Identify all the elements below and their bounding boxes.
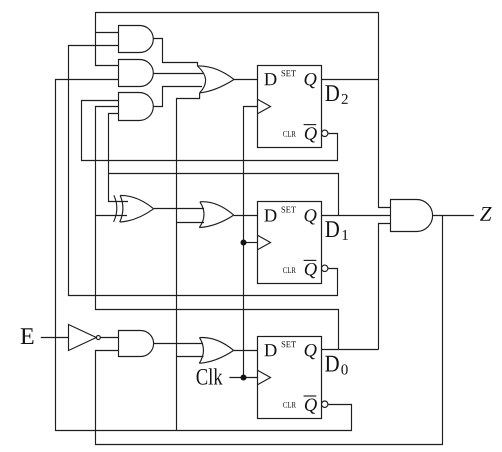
wire Q-bar0 branch to OR3 input b bbox=[177, 356, 204, 358]
wire input E bbox=[41, 337, 69, 339]
label output Z bbox=[480, 207, 492, 221]
wire Q0 riser to AND-Z input c bbox=[379, 224, 391, 350]
junction dot clock DFF0 bbox=[241, 375, 247, 381]
wire Q-bar1 feedback to AND1 input b bbox=[69, 46, 338, 296]
wire Z feedback to AND4 input b bbox=[96, 216, 443, 445]
wire Q1 feedback line bbox=[109, 174, 339, 216]
flip-flop U1 clock triangle bbox=[258, 235, 271, 250]
and gate A3 bbox=[119, 93, 154, 121]
wire Q1 output to AND-Z input b bbox=[322, 215, 391, 217]
label SET pin U1 bbox=[282, 207, 296, 213]
inverter N1 bbox=[69, 325, 97, 351]
wire Q0 feedback riser to AND3 input b bbox=[96, 107, 339, 350]
wire clock bus bbox=[244, 107, 258, 378]
wire Q-bar2 feedback to AND3 input a bbox=[82, 101, 338, 161]
flip-flop U2 Q-bar bubble bbox=[322, 130, 328, 136]
label input Clk bbox=[197, 368, 223, 385]
wire Q-bar0 branch to OR2 input b bbox=[177, 222, 205, 224]
label D pin U1 bbox=[264, 209, 276, 221]
and gate A5 output Z bbox=[391, 200, 433, 232]
wire inverter output to AND4 bbox=[100, 337, 118, 339]
label Q pin U0 bbox=[305, 344, 317, 359]
wire Q0 output bbox=[322, 349, 379, 351]
wire AND1 output staircase to OR1 bbox=[153, 39, 197, 67]
inverter bubble bbox=[96, 336, 100, 340]
wire OR2 output to D1 bbox=[234, 215, 258, 217]
flip-flop U2 clock triangle bbox=[258, 99, 271, 114]
flip-flop U1 box bbox=[258, 202, 322, 284]
label D pin U2 bbox=[264, 73, 276, 85]
label D1 bbox=[325, 221, 339, 237]
wire AND4 output to OR3 bbox=[154, 343, 203, 345]
and gate A2 bbox=[119, 60, 154, 87]
label Q pin U2 bbox=[305, 73, 317, 88]
and gate A1 bbox=[119, 26, 154, 53]
label CLR pin U0 bbox=[283, 402, 296, 408]
or gate O3 bbox=[199, 337, 233, 363]
flip-flop U2 box bbox=[258, 66, 322, 148]
label CLR pin U2 bbox=[283, 131, 296, 137]
or gate O1 bbox=[198, 66, 235, 93]
wire OR1 output to D2 bbox=[234, 79, 258, 81]
label D2 bbox=[325, 85, 339, 101]
wire Clk input bbox=[229, 377, 257, 379]
flip-flop U0 Q-bar overbar bbox=[304, 395, 317, 397]
flip-flop U1 Q-bar bubble bbox=[322, 265, 328, 271]
label D pin U0 bbox=[264, 344, 276, 356]
xor gate X1 bbox=[114, 195, 154, 222]
label D0 bbox=[325, 356, 339, 372]
wire AND2 output to OR1 bbox=[153, 73, 203, 75]
label SET pin U2 bbox=[282, 70, 296, 76]
label Q-bar pin U0 bbox=[305, 399, 317, 414]
wire Q2 output to bus bbox=[322, 79, 379, 81]
wire Q-bar0 bus to OR1 bottom input bbox=[177, 93, 200, 431]
wire OR3 output to D0 bbox=[234, 350, 258, 352]
flip-flop U1 Q-bar overbar bbox=[304, 259, 317, 261]
label Q pin U1 bbox=[305, 209, 317, 224]
flip-flop U2 Q-bar overbar bbox=[304, 124, 317, 126]
label input E bbox=[21, 328, 34, 344]
or gate O2 bbox=[199, 202, 233, 228]
wire Q-bar0 feedback to AND2 input b bbox=[56, 80, 352, 431]
wire AND3 output staircase to OR1 bbox=[153, 87, 202, 107]
label CLR pin U1 bbox=[283, 267, 296, 273]
label Q-bar pin U2 bbox=[305, 127, 317, 142]
wire Q2 branch to AND1 input a bbox=[96, 32, 119, 34]
wire Q1 feedback to AND3 input c bbox=[109, 114, 129, 202]
wire Q2 bus: right riser, top line, left drop to AND2 input a bbox=[96, 13, 391, 208]
flip-flop U0 clock triangle bbox=[258, 370, 271, 385]
label SET pin U0 bbox=[282, 341, 296, 347]
wire clock to DFF1 bbox=[244, 242, 258, 244]
wire Q0 branch to XOR input b bbox=[96, 215, 128, 217]
and gate A4 bbox=[119, 331, 154, 357]
wire Z output bbox=[433, 215, 474, 217]
flip-flop U0 box bbox=[258, 337, 322, 419]
wire XOR output to OR2 bbox=[154, 208, 204, 210]
junction dot clock DFF1 bbox=[241, 240, 247, 246]
label Q-bar pin U1 bbox=[305, 263, 317, 278]
flip-flop U0 Q-bar bubble bbox=[322, 401, 328, 407]
